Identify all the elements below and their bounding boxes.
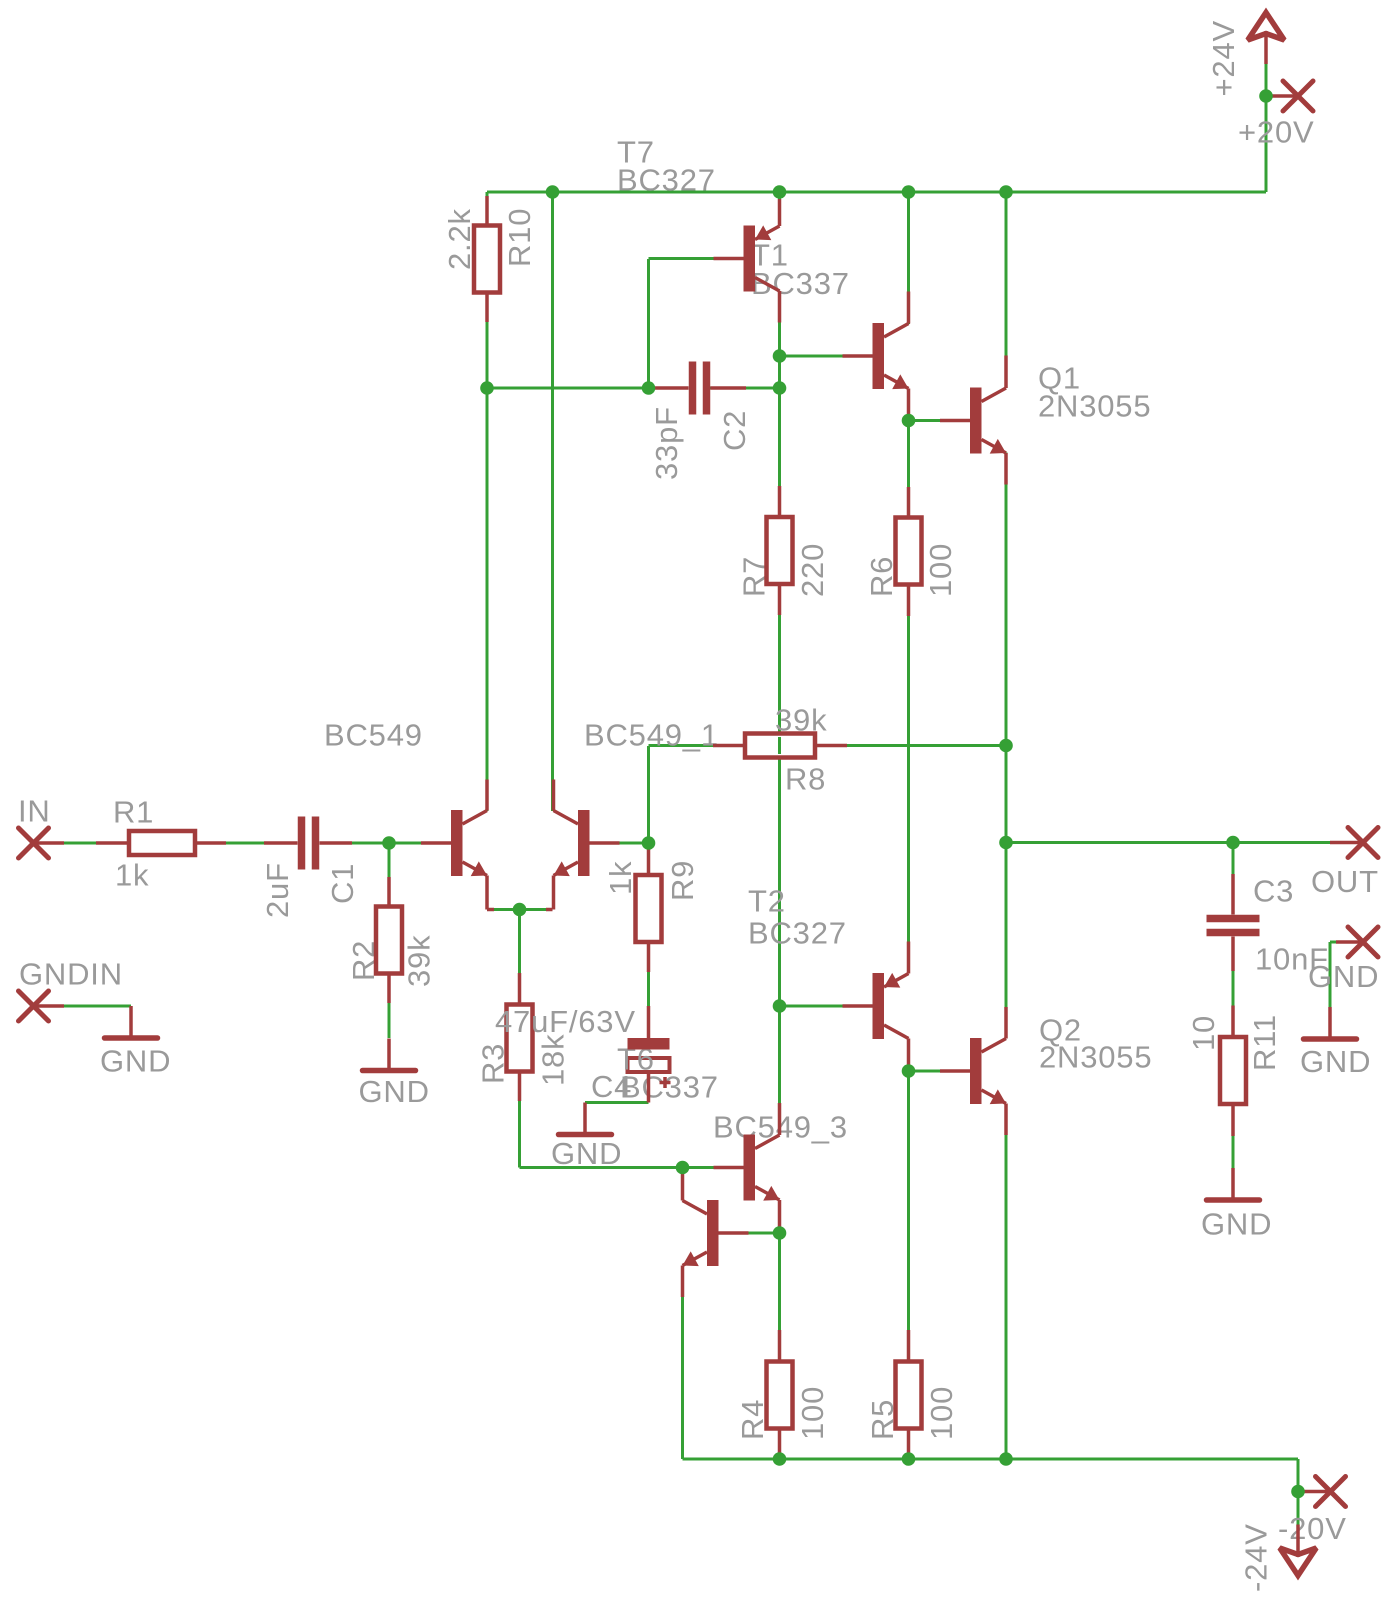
ground symbol under R11 <box>1207 1168 1260 1200</box>
wire T1 collector down through R7 to T2 base column <box>778 291 781 486</box>
svg-text:39k: 39k <box>402 935 437 987</box>
svg-text:BC327: BC327 <box>617 163 716 198</box>
wire node R10-bottom to C2 left <box>487 387 649 390</box>
junction driver base node <box>773 349 787 363</box>
svg-text:BC327: BC327 <box>748 916 847 951</box>
wire driver emitter to Q1 base <box>909 419 941 422</box>
junction driver emitter / Q1 base <box>902 414 916 428</box>
wire R8 left horizontal <box>649 744 714 747</box>
junction R10 bottom node <box>480 381 494 395</box>
svg-text:-24V: -24V <box>1239 1523 1274 1592</box>
svg-text:OUT: OUT <box>1311 864 1379 899</box>
wire C2 left up to T1 base corner <box>647 259 650 388</box>
svg-text:C3: C3 <box>1253 874 1294 909</box>
junction rail / BC549_1 collector <box>546 185 560 199</box>
wire R5 bottom to rail <box>907 1429 910 1459</box>
junction output node <box>999 836 1013 850</box>
svg-text:GND: GND <box>359 1074 430 1109</box>
wire red corner stubs at diff emitter junction <box>487 908 553 912</box>
transistor BC549_1 diff pair right <box>554 780 620 910</box>
svg-text:R3: R3 <box>476 1043 511 1084</box>
wire BC549_3 emitter node down to R4 <box>778 1233 781 1361</box>
transistor T1 (BC337) <box>714 199 780 323</box>
ground symbol at input <box>105 1006 158 1038</box>
wire C3 bottom to R11 top <box>1232 937 1235 1038</box>
wire R8 left node down to BC549_1 base <box>647 746 650 843</box>
wire node down to R9 <box>647 843 650 875</box>
svg-text:R1: R1 <box>113 795 154 830</box>
capacitor C3 <box>1207 874 1260 971</box>
svg-text:IN: IN <box>18 794 51 829</box>
wire +20V net from supply arrow down to rail corner <box>1265 64 1268 192</box>
wire R8 right to output column <box>815 744 1006 747</box>
pin +20V supply connection <box>1266 81 1313 111</box>
junction OUT / C3 tap <box>1226 836 1240 850</box>
resistor R10 <box>474 196 500 322</box>
resistor R4 <box>767 1330 793 1459</box>
supply symbol +24V arrow <box>1248 13 1285 65</box>
wire node down to R2 <box>388 843 391 877</box>
ground symbol under C4 <box>559 1103 612 1135</box>
junction rail / R5 <box>902 1452 916 1466</box>
resistor R8 <box>713 734 847 758</box>
svg-text:1k: 1k <box>115 858 149 893</box>
svg-text:GND: GND <box>1201 1207 1272 1242</box>
capacitor C2 <box>652 362 746 415</box>
wire Q2 emitter down to rail <box>1005 1104 1008 1460</box>
pin GNDIN connector <box>19 991 65 1021</box>
junction R8 right node <box>999 739 1013 753</box>
svg-text:220: 220 <box>795 543 830 597</box>
svg-text:T2: T2 <box>748 884 786 919</box>
wire driver emitter down to R6 top <box>907 389 910 518</box>
transistor BC549 diff pair left <box>421 780 487 910</box>
svg-text:R11: R11 <box>1247 1014 1282 1071</box>
svg-text:BC337: BC337 <box>620 1070 719 1105</box>
wire R3 bottom down to bias corner <box>518 1071 521 1168</box>
transistor Q1 (2N3055) <box>940 356 1006 485</box>
svg-text:C1: C1 <box>325 863 360 904</box>
svg-text:33pF: 33pF <box>649 406 684 480</box>
wire BC549_1 base node <box>620 842 649 845</box>
wire C1 to BC549 base node <box>352 842 421 845</box>
wire GNDIN horizontal <box>34 1005 132 1008</box>
wire rail corner down to R10 top <box>486 192 489 226</box>
pin OUT connector <box>1330 828 1378 858</box>
junction diff emitters / R3 <box>513 903 527 917</box>
pin IN connector <box>19 828 65 858</box>
transistor BC549_3 bias upper <box>714 1103 780 1233</box>
wire C4 bottom to GND corner <box>585 1101 649 1104</box>
wire OUT net horizontal <box>1006 841 1330 844</box>
junction rail / R4 <box>773 1452 787 1466</box>
wire bias node down to lower transistor collector <box>681 1168 684 1201</box>
wire T2 collector to Q2 base <box>909 1070 941 1073</box>
transistor Q2 (2N3055) <box>940 1007 1006 1135</box>
wire R2 bottom to GND <box>388 973 391 1038</box>
junction C2 left / T1 base <box>642 381 656 395</box>
wire bias base horizontal <box>520 1166 715 1169</box>
supply symbol -24V arrow <box>1280 1525 1317 1576</box>
junction T2 base node <box>773 999 787 1013</box>
wire diff pair emitters horizontal <box>487 908 553 911</box>
wire R4 bottom to rail <box>778 1429 781 1459</box>
svg-text:+20V: +20V <box>1238 115 1314 150</box>
capacitor C4 electrolytic negative plate <box>628 1058 670 1072</box>
wire GND pin corner down <box>1329 942 1332 1007</box>
junction rail / T1 emitter <box>773 185 787 199</box>
wire R9 bottom to C4 top <box>647 942 650 1038</box>
capacitor C4 electrolytic positive plate and pins <box>628 1006 671 1103</box>
wire rail down to driver collector <box>907 192 910 324</box>
svg-text:C2: C2 <box>717 410 752 451</box>
svg-text:18k: 18k <box>536 1034 571 1086</box>
wire rail down to BC549_1 collector <box>551 192 554 811</box>
svg-text:R9: R9 <box>665 860 700 901</box>
svg-text:GND: GND <box>551 1136 622 1171</box>
wire OUT node down to C3 <box>1232 843 1235 875</box>
svg-text:GNDIN: GNDIN <box>19 957 123 992</box>
junction T2 collector / Q2 base <box>902 1064 916 1078</box>
svg-text:GND: GND <box>1300 1044 1371 1079</box>
wire lower transistor emitter down to bottom rail <box>681 1266 684 1460</box>
wire rail down to T1 emitter <box>778 192 781 226</box>
svg-text:BC549_1: BC549_1 <box>584 718 719 753</box>
resistor R1 <box>96 831 226 855</box>
wire Q1 emitter down to Q2 collector (output column) <box>1005 453 1008 1039</box>
svg-text:1k: 1k <box>603 861 638 895</box>
svg-text:R10: R10 <box>502 208 537 267</box>
svg-text:100: 100 <box>924 1386 959 1440</box>
wire C4 bottom down <box>647 1072 650 1103</box>
junction bias base node <box>676 1161 690 1175</box>
wire C2 right to column <box>703 387 780 390</box>
wire lower transistor base to node <box>749 1232 780 1235</box>
junction rail / Q2 emitter <box>999 1452 1013 1466</box>
wire crossing through R8 body <box>778 737 781 754</box>
transistor driver NPN above Q1 <box>843 292 909 421</box>
resistor R3 <box>507 973 533 1101</box>
svg-text:+24V: +24V <box>1206 20 1241 96</box>
wire driver base branch <box>780 355 843 358</box>
svg-text:-20V: -20V <box>1278 1511 1347 1546</box>
wire emitter node down to R3 <box>518 910 521 974</box>
junction rail / Q1 collector <box>999 185 1013 199</box>
svg-text:GND: GND <box>100 1044 171 1079</box>
junction BC549_1 base / R9 / R8 <box>642 836 656 850</box>
svg-text:GND: GND <box>1308 959 1379 994</box>
wire +20V top rail <box>487 191 1266 194</box>
svg-text:2N3055: 2N3055 <box>1038 389 1151 424</box>
junction C2 right / R7 top <box>773 381 787 395</box>
ground symbol under R2 <box>363 1039 416 1071</box>
transistor bias lower PNP <box>683 1168 749 1298</box>
wire bottom rail corner down to -24V arrow <box>1297 1459 1300 1525</box>
junction rail / driver collector <box>902 185 916 199</box>
svg-text:100: 100 <box>795 1386 830 1440</box>
svg-text:10: 10 <box>1186 1015 1221 1051</box>
resistor R7 <box>767 486 793 615</box>
wire IN to R1 <box>34 842 97 845</box>
pin GND output connector <box>1336 927 1378 957</box>
wire R11 bottom to GND <box>1232 1104 1235 1168</box>
resistor R5 <box>896 1330 922 1459</box>
wire GND pin corner horizontal <box>1330 941 1336 944</box>
svg-text:R8: R8 <box>785 762 826 797</box>
wire R1 to C1 <box>226 842 264 845</box>
svg-text:BC549: BC549 <box>324 718 423 753</box>
svg-text:100: 100 <box>923 543 958 597</box>
junction -20V tap <box>1291 1485 1305 1499</box>
ground symbol at output connector <box>1304 1007 1357 1039</box>
junction input node C1/R2/base <box>382 836 396 850</box>
svg-text:2uF: 2uF <box>260 862 295 918</box>
capacitor C1 <box>264 817 352 870</box>
junction +20V tap <box>1259 89 1273 103</box>
wire T2 base branch <box>780 1005 843 1008</box>
resistor R9 <box>636 846 662 972</box>
wire R6 bottom down to T2 emitter <box>907 585 910 974</box>
wire rail down to Q1 collector <box>1005 192 1008 388</box>
wire T2 collector node down to R5 <box>907 1071 910 1361</box>
transistor T2 (BC327) <box>843 942 909 1072</box>
wire R7 bottom down past R8 to node <box>778 584 781 1103</box>
svg-text:2N3055: 2N3055 <box>1039 1040 1152 1075</box>
wire R10 bottom down to BC549 collector <box>486 293 489 812</box>
resistor R2 <box>376 877 402 1003</box>
junction BC549_3 emitter node <box>773 1226 787 1240</box>
resistor R6 <box>896 487 922 616</box>
pin -20V supply connection <box>1298 1477 1346 1507</box>
wire T1 base horizontal <box>649 257 744 260</box>
resistor R11 <box>1220 1006 1246 1137</box>
wire -20V bottom rail <box>683 1458 1299 1461</box>
